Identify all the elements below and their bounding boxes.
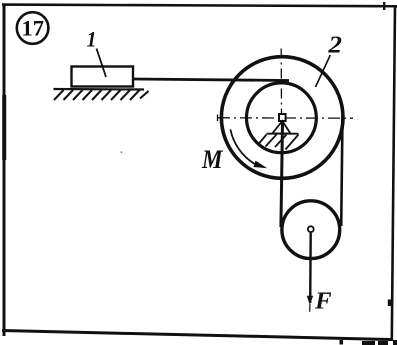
svg-text:M: M xyxy=(201,145,223,174)
svg-text:2: 2 xyxy=(327,32,342,58)
svg-text:F: F xyxy=(314,288,332,314)
svg-text:1: 1 xyxy=(87,27,97,52)
svg-text:17: 17 xyxy=(21,15,44,40)
